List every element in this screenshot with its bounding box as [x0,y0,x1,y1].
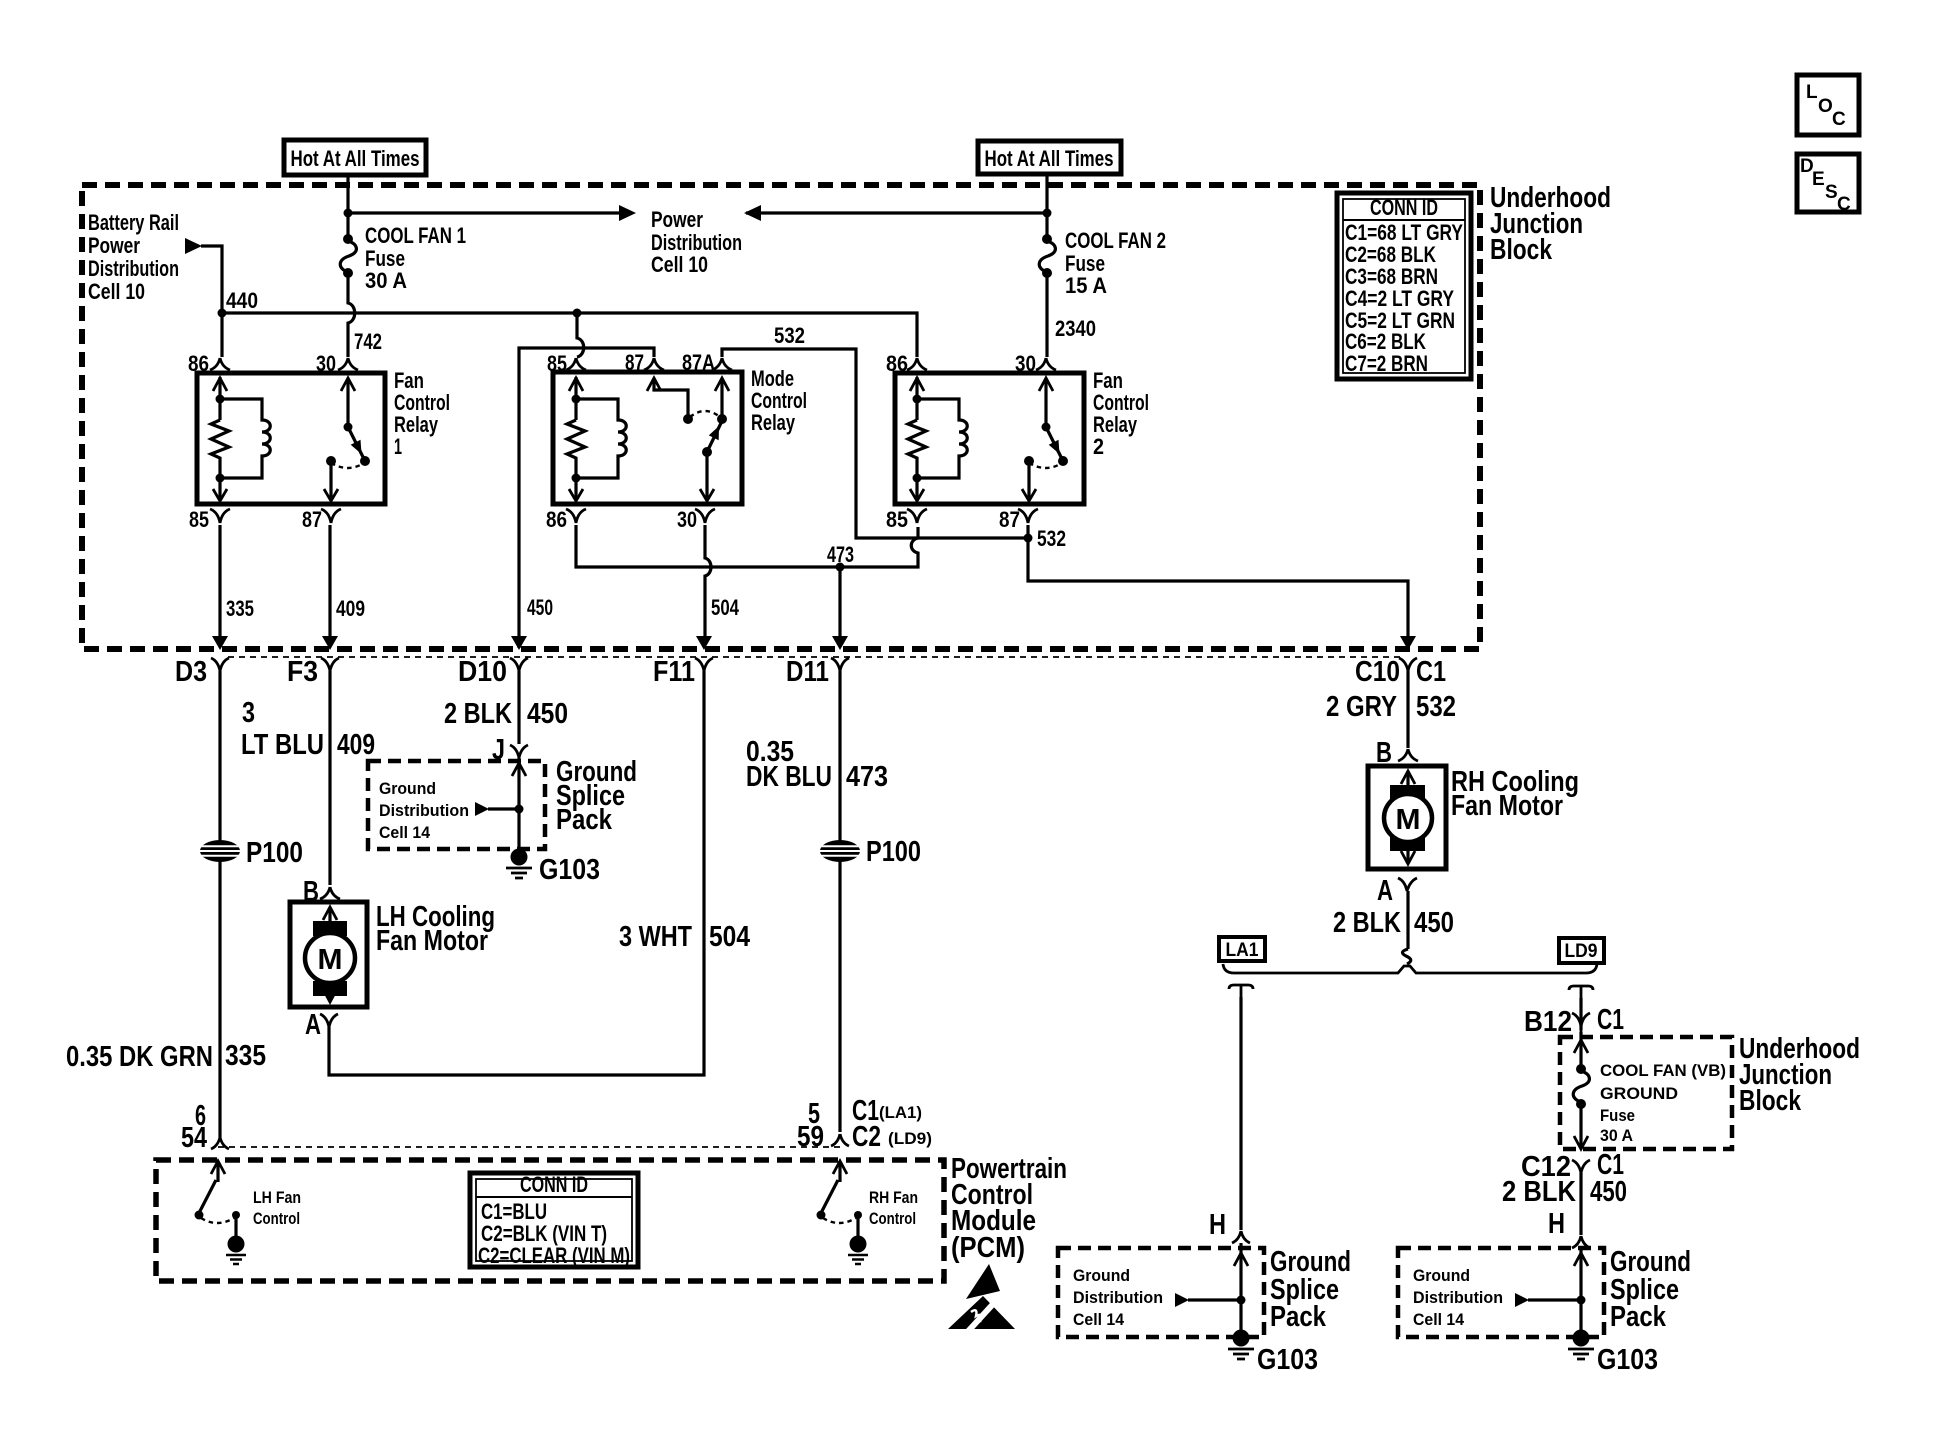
LH fan control switch [216,1164,219,1182]
svg-text:Pack: Pack [556,804,613,836]
svg-text:742: 742 [354,329,382,354]
underhood junction block 2 dashed box [1560,1037,1732,1149]
svg-text:2340: 2340 [1055,316,1096,341]
svg-text:87: 87 [999,507,1020,532]
svg-text:H: H [1548,1208,1565,1240]
junction box bottom arrows [212,636,228,650]
svg-text:Distribution: Distribution [379,801,469,820]
node 440-relay1 [218,309,227,318]
svg-text:D11: D11 [786,656,829,688]
pin A RH motor [1398,878,1417,891]
wire relay1 87 drop 409 [328,525,331,637]
wire J through splice pack [517,758,520,852]
splice split squiggle [1402,949,1410,964]
wire D11 column lower [838,671,841,1132]
relay R2 Fan Control Relay 2 [895,373,1084,504]
svg-text:H: H [1209,1209,1226,1241]
harness brace LA1 LD9 [1223,964,1597,973]
wire mode relay pin85 drop with hop [577,313,584,357]
relay R1 coil branch [218,377,221,420]
LD9 box [1559,938,1604,963]
svg-text:450: 450 [1414,907,1454,939]
pin 59 [831,1134,849,1146]
svg-text:D10: D10 [458,656,507,688]
svg-text:Power: Power [88,233,140,258]
svg-text:532: 532 [774,323,805,348]
wire 532 down to C10 [1028,525,1408,637]
svg-text:C7=2 BRN: C7=2 BRN [1345,351,1428,376]
wire LD9 column upper [1579,998,1582,1030]
svg-text:GROUND: GROUND [1600,1084,1678,1103]
svg-text:(LA1): (LA1) [879,1103,922,1122]
svg-text:Pack: Pack [1270,1301,1327,1333]
svg-text:Hot At All Times: Hot At All Times [985,146,1114,171]
svg-text:S: S [1825,182,1838,203]
svg-text:C: C [1832,109,1846,130]
svg-text:Distribution: Distribution [88,256,179,281]
wire D11 column top [838,567,841,637]
svg-text:P100: P100 [866,836,921,868]
svg-text:COOL FAN (VB): COOL FAN (VB) [1600,1061,1726,1080]
svg-text:CONN ID: CONN ID [520,1172,588,1197]
LA1 box [1219,937,1265,961]
underhood junction block dashed box [82,185,1480,649]
svg-text:54: 54 [181,1122,207,1154]
wire 504 mode30 drop with hop over 473 [705,525,711,637]
splice P100 on D3 [198,840,242,862]
wire power distribution arrow left from hot2 [746,211,1047,214]
pin C12 [1572,1160,1590,1173]
svg-text:440: 440 [226,288,258,313]
svg-text:Ground: Ground [1413,1266,1470,1285]
wire F3 column [328,671,331,885]
svg-text:B12: B12 [1524,1006,1572,1038]
svg-text:A: A [305,1009,321,1041]
DESC box [1797,154,1859,212]
wire RH motor A down [1406,891,1409,949]
svg-text:Distribution: Distribution [1073,1288,1163,1307]
svg-text:LT BLU: LT BLU [241,729,324,761]
Hot At All Times box 1 [284,140,426,175]
svg-text:30 A: 30 A [1600,1126,1633,1145]
fuse COOL FAN 1 30A [343,234,353,244]
svg-text:504: 504 [711,595,740,620]
svg-text:Relay: Relay [751,410,796,435]
svg-text:3: 3 [242,697,255,729]
svg-text:O: O [1818,96,1833,117]
ground G103 LA1 [1233,1330,1250,1347]
svg-text:85: 85 [886,507,908,532]
svg-text:473: 473 [846,761,888,793]
ground splice pack 3 dashed box [1058,1248,1264,1337]
svg-text:G103: G103 [1597,1344,1658,1376]
svg-text:335: 335 [225,1040,266,1072]
svg-text:2 BLK: 2 BLK [1502,1176,1576,1208]
svg-text:Distribution: Distribution [1413,1288,1503,1307]
node 532 junction on relay2 87 [1024,534,1033,543]
svg-text:87A: 87A [682,350,715,375]
svg-text:473: 473 [827,542,854,567]
relay U2 Mode Control Relay [553,372,742,504]
wire 2340 fuse2 to relay2 pin30 [1045,275,1048,357]
svg-text:Fan Motor: Fan Motor [1451,790,1563,822]
svg-text:2 BLK: 2 BLK [1333,907,1401,939]
svg-text:Control: Control [253,1209,300,1228]
pin 54 [211,1137,229,1149]
relay R1 Fan Control Relay 1 [197,373,385,504]
svg-text:C1: C1 [1597,1004,1624,1036]
svg-text:30: 30 [316,351,336,376]
motor M1 LH Cooling Fan Motor [290,902,367,1007]
svg-text:409: 409 [337,729,375,761]
node hot2 junction [1043,209,1052,218]
wire D10 column to mode 87 [519,348,654,648]
connector face thin dashed line [228,656,1404,658]
svg-text:450: 450 [1590,1176,1627,1208]
relay U2 coil branch [574,377,577,420]
svg-text:M: M [318,944,343,976]
LOC box [1797,75,1859,135]
svg-text:M: M [1396,804,1421,836]
svg-text:Cell 14: Cell 14 [379,823,431,842]
svg-text:Pack: Pack [1610,1301,1667,1333]
wire hot1 stem [346,175,349,237]
branch pin LD9 [1569,986,1593,998]
svg-text:C2: C2 [852,1121,881,1153]
svg-text:Cell 10: Cell 10 [651,252,708,277]
wire D3 column [218,671,221,1137]
svg-text:86: 86 [546,507,567,532]
wire battery rail feed [185,238,202,254]
svg-text:Hot At All Times: Hot At All Times [291,146,420,171]
wire LD9 column lower [1579,1173,1582,1235]
svg-text:86: 86 [886,351,908,376]
svg-text:E: E [1812,169,1825,190]
Hot At All Times box 2 [978,141,1121,174]
svg-text:LD9: LD9 [1565,941,1598,962]
svg-text:450: 450 [527,595,553,620]
wire LH motor A to F11 column [329,671,704,1075]
svg-text:C: C [1837,194,1851,215]
wire relay1 pin86 drop [220,313,223,357]
PCM dashed box [156,1160,944,1281]
pin H LD9 [1572,1236,1590,1248]
RH fan control switch [838,1164,841,1182]
svg-text:Power: Power [651,207,703,232]
svg-text:87: 87 [625,350,644,375]
connector pins D3 F3 D10 F11 D11 C10 [211,658,229,671]
pin A LH motor [320,1014,338,1027]
wire 440 bus [222,313,917,357]
svg-text:Cell 14: Cell 14 [1413,1310,1465,1329]
svg-text:2 GRY: 2 GRY [1326,691,1397,723]
svg-text:(PCM): (PCM) [951,1232,1025,1264]
svg-text:F3: F3 [287,656,318,688]
svg-text:Fuse: Fuse [1600,1106,1635,1125]
splice P100 on D11 [818,840,862,862]
wire 473 mode86 to relay2 85 with hop [576,525,918,567]
relay U2 pins [566,358,586,370]
fuse COOL FAN VB GROUND 30A [1579,1032,1582,1067]
ground splice pack 1 dashed box [368,761,545,849]
wire C10 column [1406,671,1409,748]
branch pin LA1 [1229,985,1253,997]
wire relay1 85 drop 335 [218,525,221,637]
svg-text:COOL FAN 2: COOL FAN 2 [1065,228,1166,253]
relay R1 switch [346,378,349,427]
svg-text:Block: Block [1490,234,1553,266]
svg-text:85: 85 [547,351,567,376]
svg-text:D3: D3 [175,656,207,688]
svg-text:2 BLK: 2 BLK [444,698,512,730]
node hot1 junction [344,209,353,218]
CONN ID table PCM [470,1173,638,1267]
svg-text:532: 532 [1416,691,1456,723]
svg-text:LH Fan: LH Fan [253,1188,301,1207]
motor M2 RH Cooling Fan Motor [1368,766,1446,869]
fuse COOL FAN 2 15A [1045,174,1048,237]
svg-text:1: 1 [394,434,402,459]
svg-text:Block: Block [1739,1085,1802,1117]
svg-text:450: 450 [527,698,568,730]
svg-text:(LD9): (LD9) [888,1129,932,1148]
svg-text:Fan Motor: Fan Motor [376,925,488,957]
svg-text:87: 87 [302,507,322,532]
svg-text:Control: Control [869,1209,916,1228]
relay R2 coil branch [915,377,918,420]
svg-text:409: 409 [336,596,365,621]
svg-text:59: 59 [797,1121,824,1153]
CONN ID table top [1337,193,1471,379]
svg-text:L: L [1806,82,1818,103]
svg-text:532: 532 [1037,526,1066,551]
relay R2 pins [907,358,927,370]
svg-text:CONN ID: CONN ID [1370,195,1438,220]
svg-text:F11: F11 [653,656,695,688]
svg-text:Ground: Ground [379,779,436,798]
pin J [510,745,528,758]
wire 532 mode 87A to relay2 87 [722,349,1028,538]
svg-text:Cell 10: Cell 10 [88,279,145,304]
svg-text:C1: C1 [1416,656,1446,688]
svg-text:30: 30 [1015,351,1036,376]
pin H LA1 [1232,1231,1250,1243]
svg-text:G103: G103 [1257,1344,1318,1376]
svg-text:RH Fan: RH Fan [869,1188,918,1207]
ground G103 LD9 [1573,1330,1590,1347]
pin B RH motor [1398,749,1418,761]
pin B12 [1572,1013,1590,1032]
PCM connector face thin dashed [218,1146,841,1148]
svg-text:3 WHT: 3 WHT [619,921,692,953]
node 440-mode85 [573,309,582,318]
svg-text:P100: P100 [246,837,303,869]
svg-text:Battery Rail: Battery Rail [88,210,179,235]
svg-text:15 A: 15 A [1065,273,1107,298]
pin B LH motor [320,887,340,899]
svg-text:85: 85 [189,507,209,532]
node 473-D11 [836,563,845,572]
svg-text:Ground: Ground [1073,1266,1130,1285]
svg-text:C2=CLEAR (VIN M): C2=CLEAR (VIN M) [478,1243,630,1268]
wire to power distribution arrow right [348,211,621,214]
relay U2 switch 87/87A/30 [654,378,688,419]
ground G103 [511,849,528,866]
svg-text:0.35 DK GRN: 0.35 DK GRN [66,1041,213,1073]
relay R1 pins [210,358,230,370]
ground distribution arrow [475,802,489,816]
svg-text:30: 30 [677,507,697,532]
wire LA1 column [1239,997,1242,1230]
svg-text:DK BLU: DK BLU [746,761,832,793]
ground splice pack 4 dashed box [1398,1248,1604,1337]
wire 742 fuse1 to relay1 pin30 with hop over 440 [348,275,355,357]
wire D10 column lower [517,671,520,744]
svg-text:G103: G103 [539,854,600,886]
ESD symbol [966,1264,1000,1299]
svg-text:Cell 14: Cell 14 [1073,1310,1125,1329]
svg-text:30 A: 30 A [365,268,407,293]
relay R2 switch [1044,378,1047,427]
svg-text:86: 86 [188,351,209,376]
svg-text:2: 2 [1093,434,1104,459]
svg-text:504: 504 [709,921,750,953]
svg-text:335: 335 [226,596,254,621]
svg-text:C10: C10 [1355,656,1400,688]
svg-text:COOL FAN 1: COOL FAN 1 [365,223,466,248]
svg-text:A: A [1377,875,1393,907]
svg-text:LA1: LA1 [1226,940,1259,961]
